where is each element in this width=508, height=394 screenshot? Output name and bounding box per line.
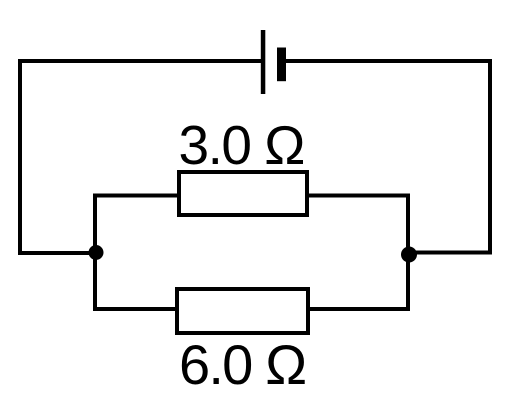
node B junction dot (right) <box>401 247 417 263</box>
wire: outer loop left side (battery positive to left node) <box>20 61 261 253</box>
resistor R2 body (6.0 ohm) <box>177 289 308 333</box>
wire: right branch from top resistor to node B and bottom resistor <box>309 196 408 310</box>
node A junction dot (left) <box>89 245 104 260</box>
svg-text:6.0 Ω: 6.0 Ω <box>179 333 305 394</box>
svg-text:3.0 Ω: 3.0 Ω <box>179 114 304 176</box>
wire: left branch from node A to top resistor and down to bottom resistor <box>95 196 177 310</box>
resistor R1 body (3.0 ohm) <box>179 172 307 215</box>
battery V1 short thick plate (negative terminal) <box>277 48 286 82</box>
battery V1 long plate (positive terminal) <box>261 30 266 94</box>
wire: outer loop right side (battery negative to right node) <box>286 61 490 253</box>
